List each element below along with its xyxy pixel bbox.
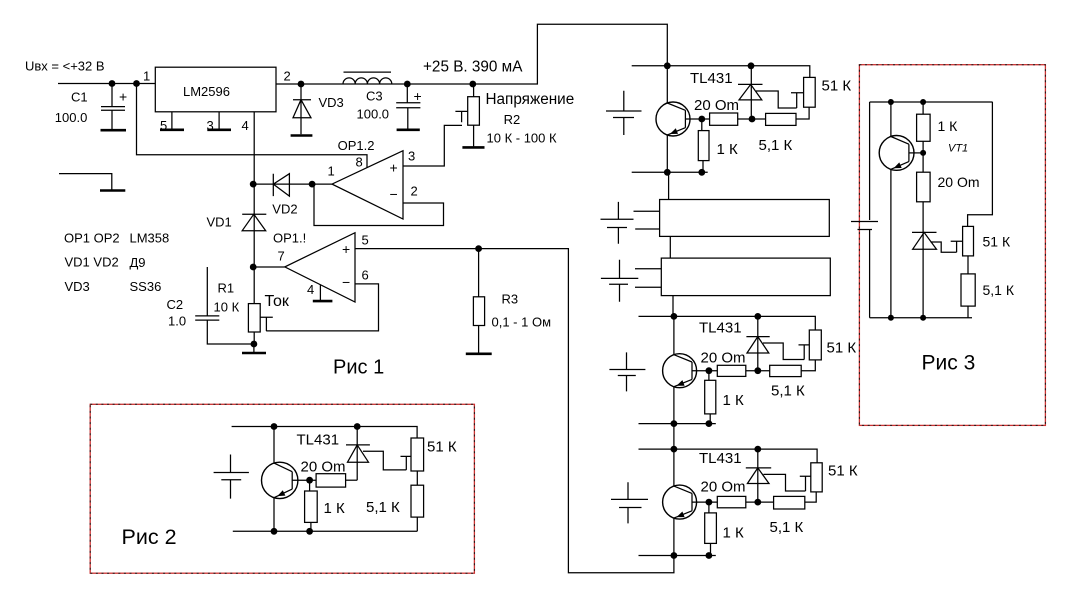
- svg-text:5,1 К: 5,1 К: [983, 282, 1015, 298]
- svg-text:10 К: 10 К: [214, 300, 240, 315]
- svg-text:VT1: VT1: [948, 142, 968, 154]
- svg-text:51 К: 51 К: [427, 439, 457, 456]
- svg-text:VD1: VD1: [207, 215, 232, 230]
- svg-text:SS36: SS36: [130, 279, 162, 294]
- svg-text:0,1 - 1 Ом: 0,1 - 1 Ом: [492, 314, 552, 329]
- svg-text:−: −: [390, 186, 398, 202]
- svg-text:C2: C2: [167, 297, 184, 312]
- svg-text:2: 2: [284, 69, 291, 84]
- svg-text:10 К - 100 К: 10 К - 100 К: [487, 130, 557, 145]
- svg-text:5,1 К: 5,1 К: [771, 383, 805, 400]
- svg-text:R2: R2: [504, 112, 521, 127]
- svg-text:Ток: Ток: [265, 293, 290, 310]
- svg-text:1 К: 1 К: [723, 525, 745, 542]
- svg-text:3: 3: [408, 148, 415, 163]
- svg-text:1 К: 1 К: [717, 141, 739, 158]
- svg-text:51 К: 51 К: [828, 462, 858, 479]
- svg-text:20 Om: 20 Om: [701, 479, 746, 496]
- svg-text:Д9: Д9: [130, 255, 146, 270]
- svg-text:+: +: [414, 88, 422, 104]
- svg-text:R1: R1: [218, 281, 235, 296]
- svg-text:TL431: TL431: [297, 432, 340, 449]
- svg-text:C3: C3: [366, 89, 383, 104]
- svg-text:20 Om: 20 Om: [701, 350, 746, 367]
- svg-text:1 К: 1 К: [324, 500, 346, 517]
- svg-text:Рис 1: Рис 1: [333, 357, 384, 379]
- svg-text:Рис 2: Рис 2: [122, 525, 177, 549]
- svg-text:5,1 К: 5,1 К: [366, 499, 400, 516]
- svg-text:20 Om: 20 Om: [694, 97, 739, 114]
- svg-text:VD3: VD3: [65, 279, 90, 294]
- svg-text:51 К: 51 К: [822, 78, 852, 95]
- svg-text:5,1 К: 5,1 К: [770, 519, 804, 536]
- svg-text:OP1 OP2: OP1 OP2: [64, 231, 120, 246]
- svg-text:LM358: LM358: [130, 231, 170, 246]
- svg-text:R3: R3: [502, 292, 519, 307]
- svg-text:4: 4: [242, 118, 249, 133]
- svg-text:1 К: 1 К: [723, 392, 745, 409]
- svg-text:Рис 3: Рис 3: [922, 352, 976, 375]
- svg-text:VD1 VD2: VD1 VD2: [65, 254, 119, 269]
- svg-text:1 К: 1 К: [938, 118, 959, 134]
- svg-text:4: 4: [307, 282, 314, 297]
- svg-text:Uвх = <+32 В: Uвх = <+32 В: [25, 59, 105, 74]
- svg-text:100.0: 100.0: [55, 110, 88, 125]
- svg-text:TL431: TL431: [699, 450, 742, 467]
- svg-text:1: 1: [328, 164, 335, 179]
- svg-text:OP1.2: OP1.2: [338, 138, 375, 153]
- svg-text:3: 3: [207, 118, 214, 133]
- svg-text:7: 7: [278, 249, 285, 264]
- svg-text:51 К: 51 К: [983, 234, 1011, 250]
- svg-text:5: 5: [362, 233, 369, 248]
- svg-text:TL431: TL431: [690, 70, 733, 87]
- svg-text:5: 5: [160, 118, 167, 133]
- svg-text:51 К: 51 К: [827, 339, 857, 356]
- svg-text:+: +: [342, 241, 350, 257]
- svg-text:20 Om: 20 Om: [301, 459, 346, 476]
- svg-text:+: +: [119, 89, 127, 105]
- svg-text:8: 8: [356, 155, 363, 170]
- svg-text:−: −: [342, 274, 350, 290]
- svg-text:VD3: VD3: [319, 95, 344, 110]
- svg-text:6: 6: [362, 268, 369, 283]
- svg-text:5,1 К: 5,1 К: [759, 137, 793, 154]
- svg-text:1.0: 1.0: [168, 314, 186, 329]
- svg-text:100.0: 100.0: [357, 107, 390, 122]
- svg-text:20 Om: 20 Om: [938, 174, 980, 190]
- svg-text:Напряжение: Напряжение: [486, 91, 575, 108]
- svg-text:+25 В. 390 мА: +25 В. 390 мА: [423, 58, 523, 75]
- svg-text:LM2596: LM2596: [183, 84, 230, 99]
- svg-text:2: 2: [411, 184, 418, 199]
- svg-text:TL431: TL431: [699, 320, 742, 337]
- svg-text:+: +: [390, 159, 398, 175]
- svg-text:VD2: VD2: [272, 202, 297, 217]
- svg-text:1: 1: [143, 69, 150, 84]
- svg-text:OP1.!: OP1.!: [273, 231, 306, 246]
- svg-text:C1: C1: [71, 90, 88, 105]
